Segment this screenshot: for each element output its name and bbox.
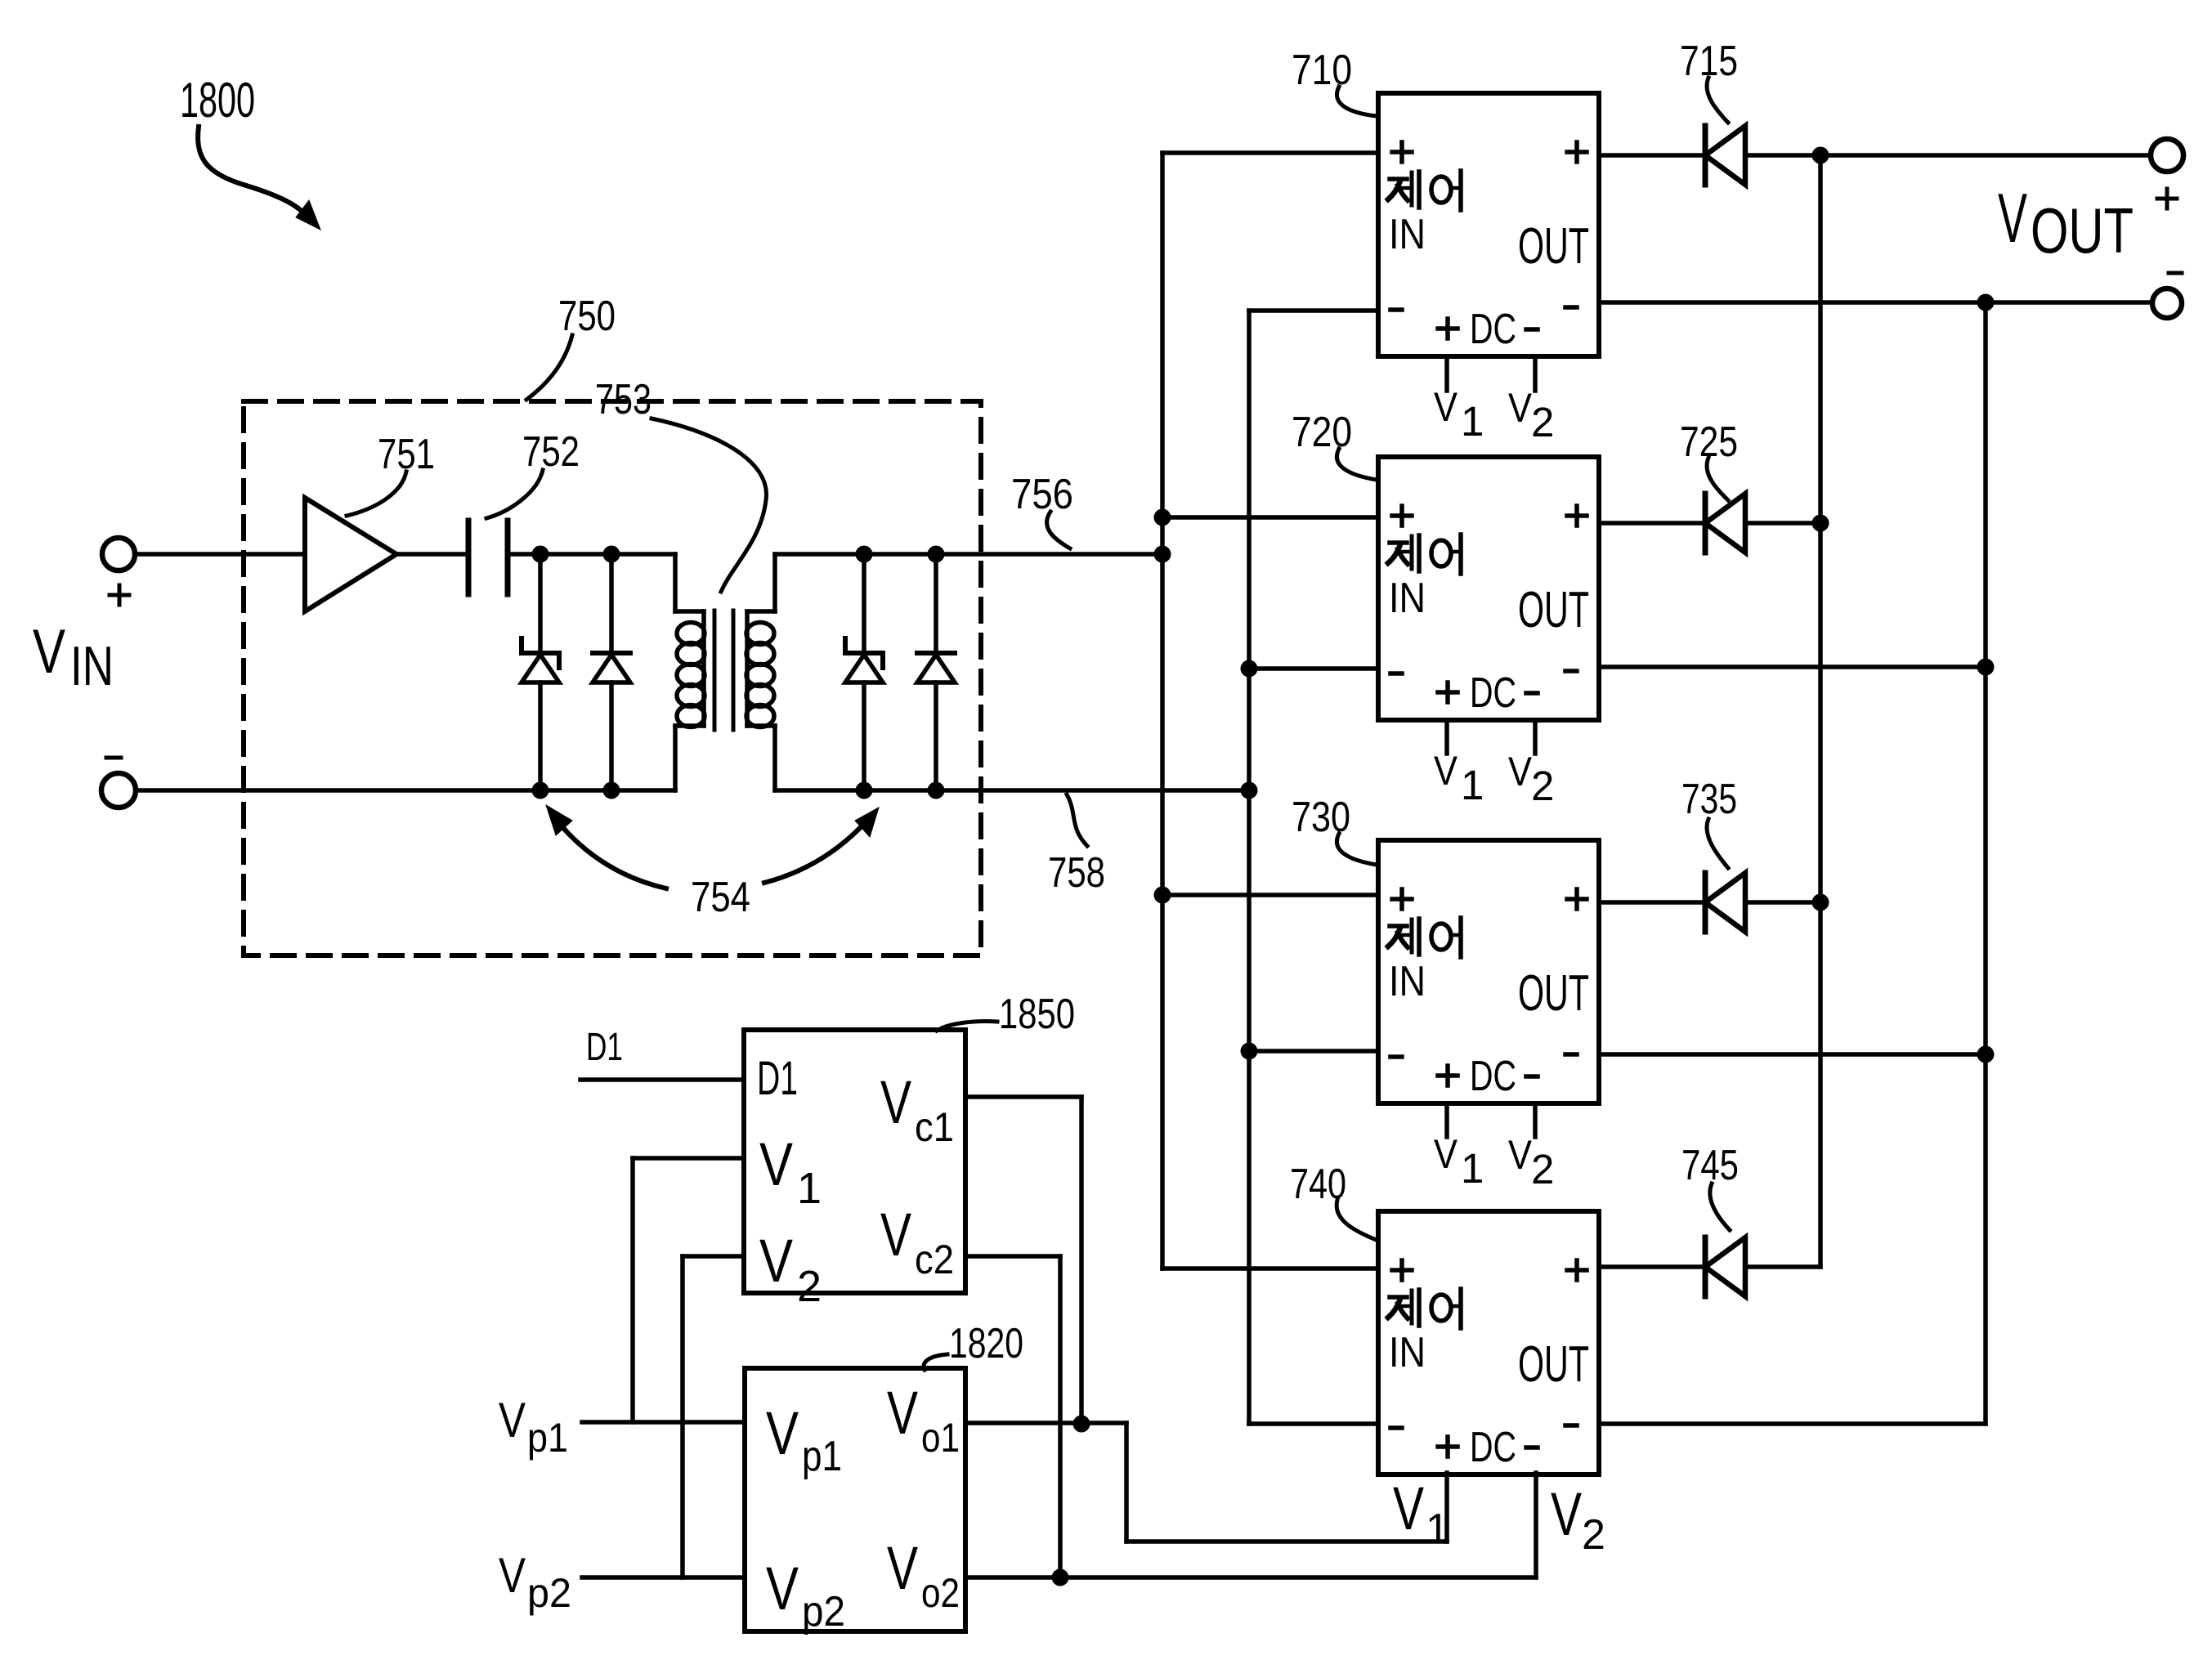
svg-text:IN: IN bbox=[1389, 575, 1426, 622]
svg-text:OUT: OUT bbox=[1518, 1336, 1589, 1393]
svg-text:OUT: OUT bbox=[1518, 218, 1589, 275]
svg-text:p2: p2 bbox=[527, 1570, 571, 1616]
svg-text:IN: IN bbox=[1389, 1329, 1426, 1376]
svg-text:V: V bbox=[1998, 180, 2027, 257]
svg-text:c1: c1 bbox=[915, 1104, 954, 1150]
svg-text:740: 740 bbox=[1290, 1161, 1346, 1208]
svg-text:V: V bbox=[1508, 749, 1533, 794]
svg-text:V: V bbox=[766, 1399, 799, 1467]
svg-text:V: V bbox=[880, 1201, 911, 1268]
svg-text:o1: o1 bbox=[921, 1415, 960, 1461]
svg-text:p1: p1 bbox=[527, 1415, 568, 1461]
svg-text:V: V bbox=[887, 1379, 918, 1447]
svg-text:735: 735 bbox=[1681, 776, 1737, 823]
svg-text:V: V bbox=[1434, 384, 1458, 430]
svg-text:V: V bbox=[1393, 1474, 1424, 1542]
svg-text:V: V bbox=[1551, 1480, 1582, 1548]
svg-text:730: 730 bbox=[1292, 794, 1350, 841]
svg-text:OUT: OUT bbox=[1518, 582, 1589, 638]
svg-text:753: 753 bbox=[595, 376, 652, 423]
svg-text:1: 1 bbox=[1461, 398, 1484, 445]
svg-text:2: 2 bbox=[1531, 399, 1554, 445]
svg-text:1850: 1850 bbox=[999, 991, 1075, 1038]
svg-text:IN: IN bbox=[1389, 958, 1426, 1005]
svg-text:D1: D1 bbox=[757, 1052, 798, 1105]
svg-text:V: V bbox=[1434, 1131, 1458, 1177]
svg-text:DC: DC bbox=[1470, 669, 1516, 717]
svg-text:756: 756 bbox=[1011, 471, 1073, 518]
svg-text:V: V bbox=[1508, 385, 1533, 431]
svg-text:DC: DC bbox=[1470, 1053, 1516, 1100]
svg-text:IN: IN bbox=[70, 635, 114, 697]
svg-text:745: 745 bbox=[1681, 1142, 1739, 1189]
svg-text:715: 715 bbox=[1680, 38, 1738, 85]
svg-text:V: V bbox=[759, 1130, 794, 1198]
svg-text:V: V bbox=[1434, 748, 1458, 794]
svg-text:OUT: OUT bbox=[1518, 965, 1589, 1022]
svg-text:V: V bbox=[1508, 1132, 1533, 1178]
svg-text:2: 2 bbox=[1531, 763, 1554, 809]
svg-text:p2: p2 bbox=[802, 1588, 845, 1635]
svg-text:1: 1 bbox=[1461, 1145, 1484, 1192]
svg-text:754: 754 bbox=[691, 874, 750, 921]
svg-text:1800: 1800 bbox=[180, 73, 255, 128]
svg-text:750: 750 bbox=[558, 293, 616, 340]
svg-text:1: 1 bbox=[797, 1164, 822, 1213]
svg-text:c2: c2 bbox=[915, 1237, 954, 1282]
svg-text:IN: IN bbox=[1389, 211, 1426, 258]
svg-text:DC: DC bbox=[1470, 1424, 1516, 1471]
svg-text:751: 751 bbox=[378, 431, 435, 478]
svg-text:752: 752 bbox=[522, 428, 580, 476]
svg-text:V: V bbox=[759, 1227, 794, 1295]
svg-text:p1: p1 bbox=[802, 1433, 842, 1480]
svg-text:V: V bbox=[499, 1548, 526, 1603]
svg-text:V: V bbox=[33, 617, 65, 687]
svg-text:2: 2 bbox=[797, 1262, 822, 1311]
svg-text:o2: o2 bbox=[921, 1570, 960, 1616]
svg-text:1820: 1820 bbox=[949, 1320, 1023, 1367]
svg-text:V: V bbox=[880, 1068, 911, 1136]
svg-text:2: 2 bbox=[1531, 1146, 1554, 1192]
svg-text:725: 725 bbox=[1680, 418, 1738, 466]
svg-text:1: 1 bbox=[1461, 762, 1484, 808]
svg-text:V: V bbox=[499, 1393, 526, 1447]
svg-text:DC: DC bbox=[1470, 306, 1516, 353]
svg-text:710: 710 bbox=[1292, 47, 1352, 94]
svg-text:V: V bbox=[766, 1555, 799, 1622]
svg-text:2: 2 bbox=[1582, 1511, 1605, 1559]
svg-text:V: V bbox=[887, 1534, 918, 1602]
svg-text:758: 758 bbox=[1048, 849, 1105, 897]
svg-text:OUT: OUT bbox=[2031, 195, 2134, 266]
svg-text:1: 1 bbox=[1426, 1506, 1449, 1553]
svg-text:720: 720 bbox=[1292, 409, 1352, 456]
svg-text:D1: D1 bbox=[586, 1026, 623, 1069]
